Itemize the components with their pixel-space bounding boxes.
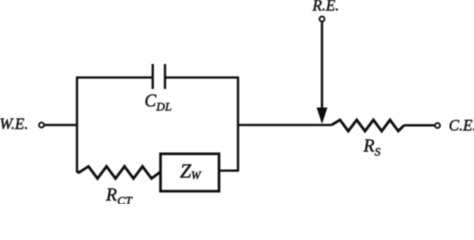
svg-text:R.E.: R.E. (312, 0, 340, 15)
svg-text:C.E.: C.E. (449, 117, 474, 134)
svg-text:C: C (145, 91, 157, 111)
svg-text:R: R (105, 185, 117, 205)
svg-text:CT: CT (117, 194, 133, 205)
svg-text:DL: DL (155, 100, 172, 114)
svg-text:R: R (363, 136, 375, 156)
svg-text:S: S (375, 145, 381, 159)
svg-text:W.E.: W.E. (0, 116, 28, 133)
svg-text:W: W (191, 170, 202, 182)
